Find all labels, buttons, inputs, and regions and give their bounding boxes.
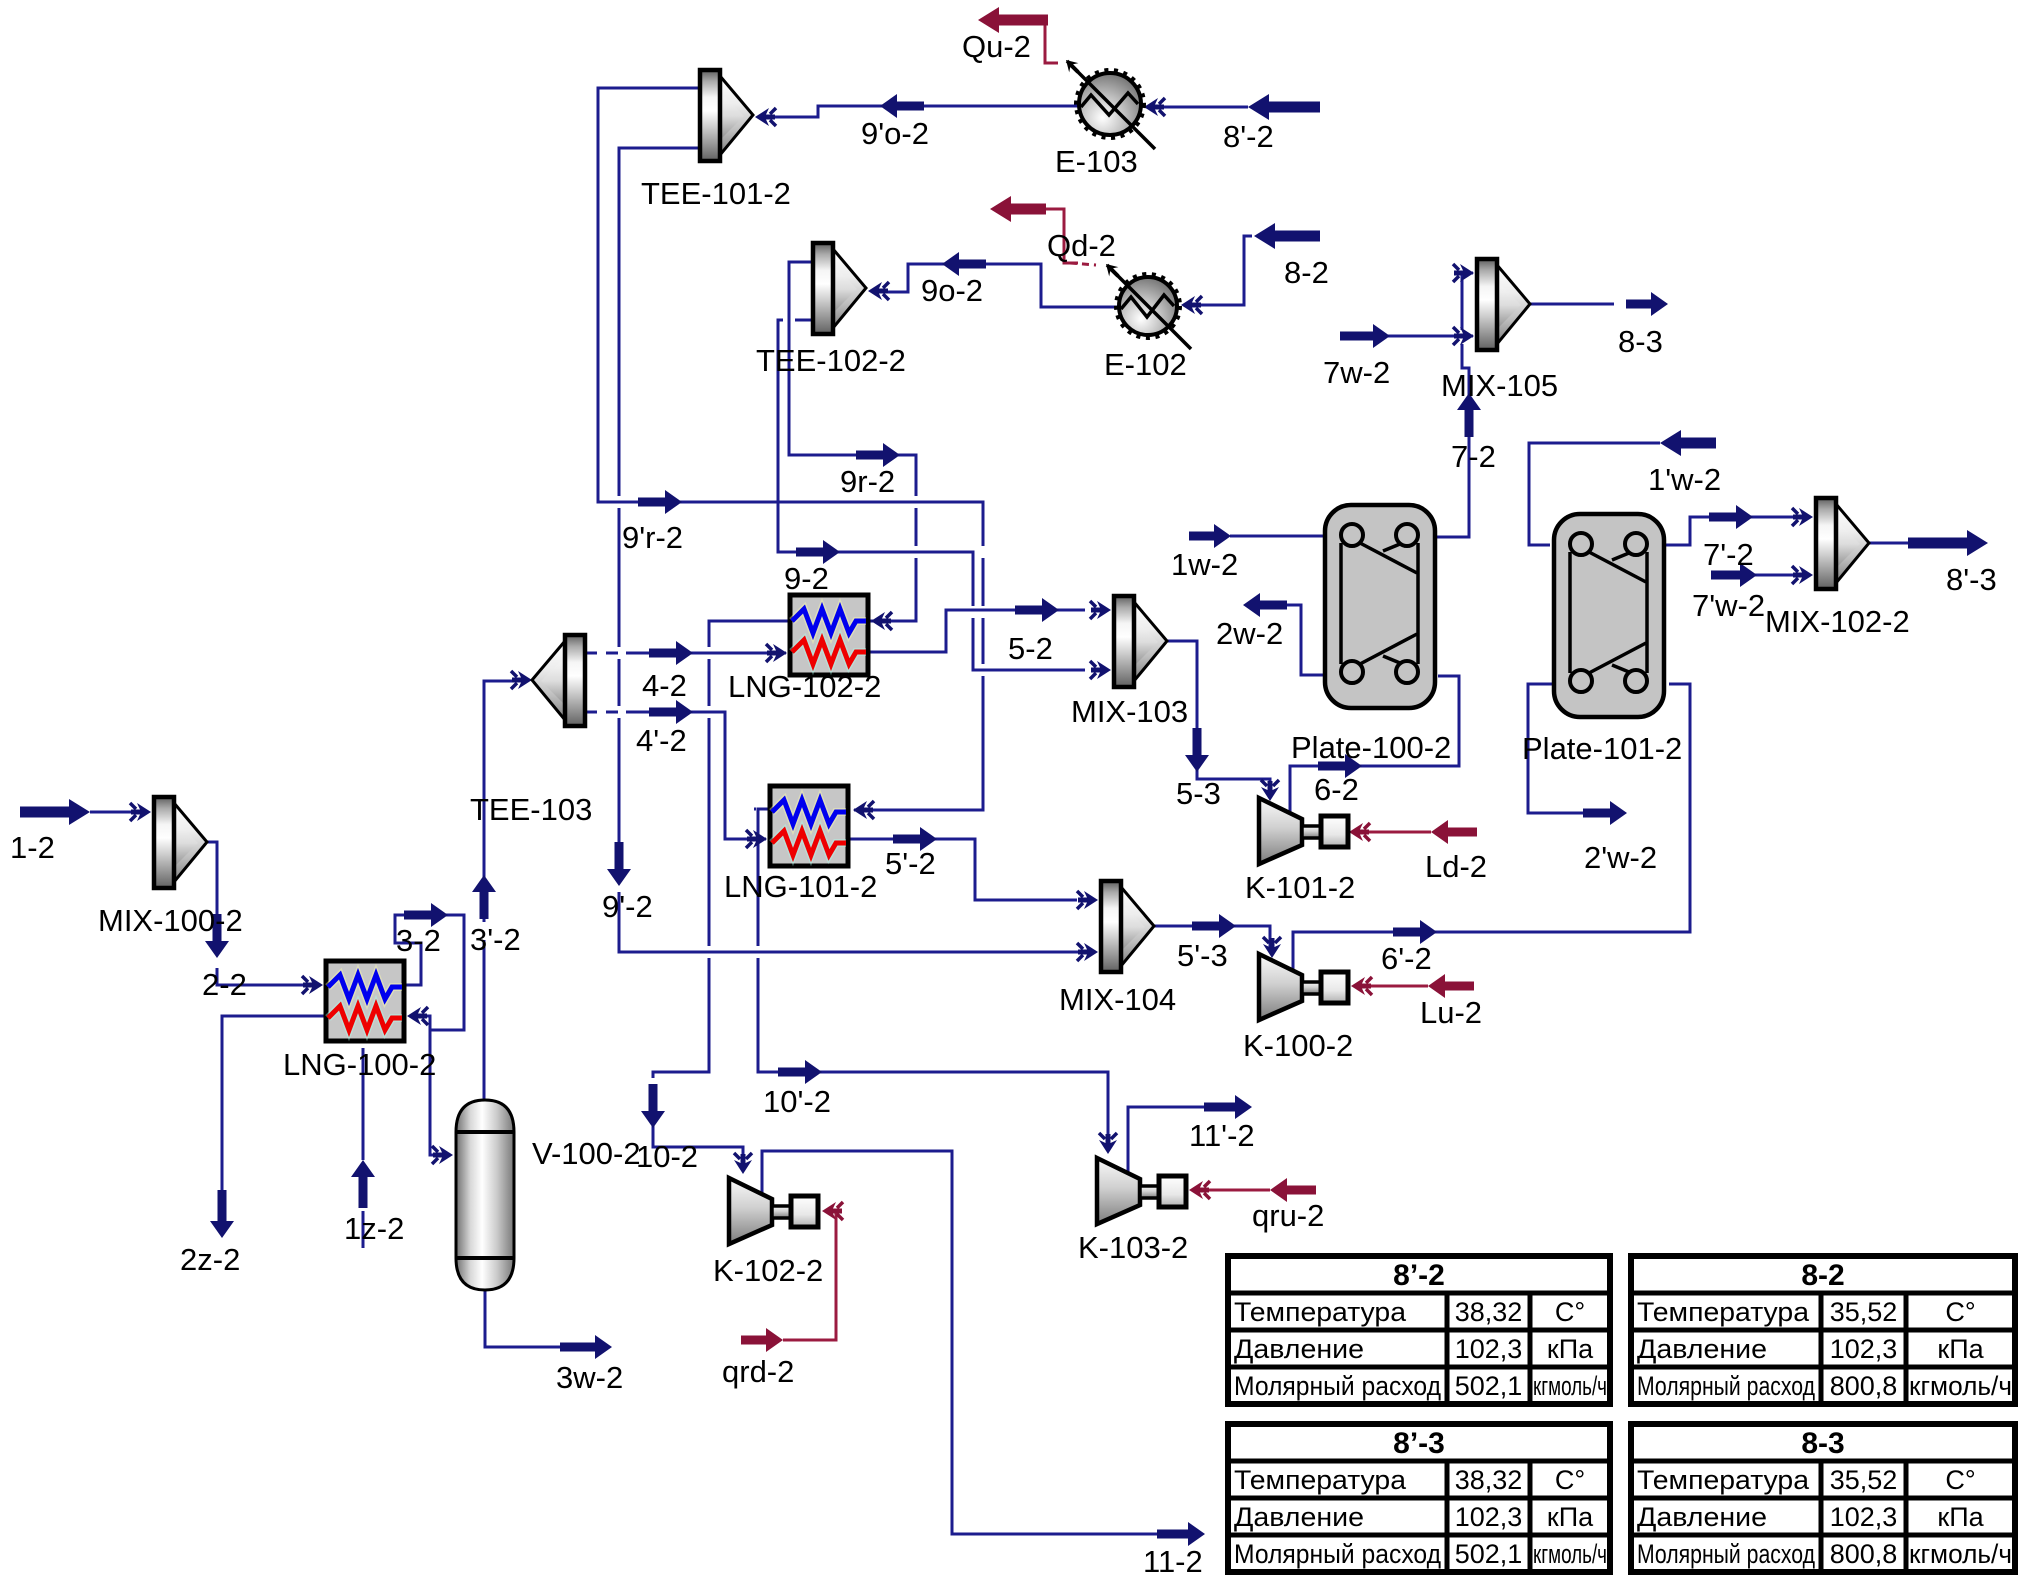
svg-text:8-2: 8-2 [1284, 255, 1329, 290]
arrow Lu-2 stub [1428, 974, 1474, 998]
svg-text:4-2: 4-2 [642, 668, 687, 703]
arrow 5'-3 [1192, 914, 1236, 938]
wire 4'-2 TEE-103 to LNG-101-2 cold inlet [585, 712, 766, 839]
wire 1'w-2 feed to Plate-101-2 [1529, 443, 1660, 545]
arrow 5-2 [1015, 598, 1059, 622]
wire 3w-2 V-100-2 bottoms stub [485, 1290, 561, 1347]
wire 1-2 feed to MIX-100-2 [90, 811, 132, 814]
arrow 4'-2 [649, 700, 693, 724]
svg-text:9'-2: 9'-2 [602, 889, 653, 924]
arrow 7w-2 [1340, 324, 1390, 348]
svg-text:3'-2: 3'-2 [470, 922, 521, 957]
svg-text:C°: C° [1945, 1465, 1975, 1495]
svg-text:кПа: кПа [1937, 1502, 1984, 1532]
mixer MIX-100-2 [154, 797, 207, 888]
inlet arrow V-100-2 [432, 1146, 453, 1164]
energy inlet arrow K-100-2 [1351, 977, 1372, 995]
arrow 9-2 [796, 540, 840, 564]
arrow Qd-2 stub [990, 196, 1046, 222]
inlet arrow MIX-100-2 [130, 803, 151, 821]
energy stream qrd-2 to K-102-2 [783, 1211, 836, 1340]
wire 3-2 LNG-100-2 recycle loop [395, 915, 464, 1030]
svg-text:5-3: 5-3 [1176, 776, 1221, 811]
wire 8'-2 feed to E-103 [1146, 106, 1248, 109]
inlet arrow MIX-103 upper [1090, 601, 1111, 619]
svg-text:102,3: 102,3 [1455, 1502, 1523, 1532]
svg-text:C°: C° [1945, 1297, 1975, 1327]
energy stream Qu-2 to E-103 [1045, 22, 1058, 63]
svg-text:Молярный расход: Молярный расход [1234, 1371, 1441, 1401]
svg-text:Молярный расход: Молярный расход [1637, 1371, 1815, 1401]
svg-text:кПа: кПа [1937, 1334, 1984, 1364]
inlet arrow TEE-101-2 [755, 108, 776, 126]
energy inlet arrow K-102-2 [822, 1202, 843, 1220]
svg-text:4'-2: 4'-2 [636, 723, 687, 758]
svg-text:LNG-102-2: LNG-102-2 [728, 669, 881, 704]
svg-text:Молярный расход: Молярный расход [1234, 1539, 1441, 1569]
svg-text:7'-2: 7'-2 [1703, 537, 1754, 572]
svg-text:LNG-101-2: LNG-101-2 [724, 869, 877, 904]
arrow 3'-2 upward [472, 875, 496, 919]
wire 4-2 TEE-103 to LNG-102-2 cold inlet [585, 652, 786, 655]
arrow 11'-2 stub [1204, 1095, 1252, 1119]
wire 5'-3 MIX-104 outlet to K-100-2 [1152, 926, 1270, 950]
svg-text:9r-2: 9r-2 [840, 464, 895, 499]
arrow 5-3 downward [1185, 728, 1209, 772]
table 8’-3 [1228, 1424, 1610, 1572]
svg-text:8-3: 8-3 [1618, 324, 1663, 359]
arrow 1-2 feed stub [20, 799, 90, 825]
arrow qrd-2 stub [741, 1328, 783, 1352]
svg-text:9o-2: 9o-2 [921, 273, 983, 308]
arrow 4-2 [649, 641, 693, 665]
wire 8'-3 MIX-102-2 product stub [1867, 542, 1910, 545]
svg-text:6-2: 6-2 [1314, 772, 1359, 807]
svg-text:qru-2: qru-2 [1252, 1198, 1324, 1233]
svg-text:TEE-103: TEE-103 [470, 792, 592, 827]
energy inlet arrow K-101-2 [1349, 823, 1370, 841]
svg-text:Давление: Давление [1637, 1334, 1767, 1364]
svg-text:E-103: E-103 [1055, 144, 1138, 179]
mixer MIX-102-2 [1816, 498, 1869, 589]
svg-text:9'o-2: 9'o-2 [861, 116, 929, 151]
wire 8-2 feed to E-102 [1183, 236, 1252, 305]
svg-text:Температура: Температура [1637, 1465, 1810, 1495]
svg-text:MIX-102-2: MIX-102-2 [1765, 604, 1910, 639]
svg-text:800,8: 800,8 [1830, 1539, 1898, 1569]
arrow Qu-2 stub [978, 7, 1048, 33]
svg-text:2z-2: 2z-2 [180, 1242, 240, 1277]
svg-text:800,8: 800,8 [1830, 1371, 1898, 1401]
svg-text:MIX-105: MIX-105 [1441, 368, 1558, 403]
tee TEE-102-2 [813, 243, 866, 334]
svg-text:1z-2: 1z-2 [344, 1211, 404, 1246]
svg-text:8-3: 8-3 [1801, 1427, 1844, 1460]
energy stream Qd-2 to E-102 [1046, 209, 1078, 263]
svg-text:Температура: Температура [1234, 1465, 1407, 1495]
svg-text:2-2: 2-2 [202, 967, 247, 1002]
inlet arrow TEE-102-2 [868, 282, 889, 300]
inlet arrow MIX-102-2 lower [1792, 566, 1813, 584]
wire 2w-2 Plate-100-2 outlet stub [1247, 605, 1325, 675]
arrow 9'r-2 [638, 490, 682, 514]
inlet arrow E-102 [1181, 296, 1202, 314]
svg-text:LNG-100-2: LNG-100-2 [283, 1047, 436, 1082]
wire 9-2 TEE-102-2 bottom output to MIX-103 lower inlet [778, 320, 1085, 670]
svg-text:MIX-100-2: MIX-100-2 [98, 903, 243, 938]
inlet arrow LNG-101-2 hot [853, 801, 874, 819]
svg-text:9-2: 9-2 [784, 561, 829, 596]
svg-text:1'w-2: 1'w-2 [1648, 462, 1721, 497]
wire 9r-2 TEE-102-2 top output to LNG-102-2 hot inlet [789, 262, 916, 621]
svg-text:8'-2: 8'-2 [1223, 119, 1274, 154]
energy stream Ld-2 to K-101-2 [1354, 831, 1431, 834]
svg-text:7'w-2: 7'w-2 [1692, 588, 1765, 623]
arrow 8'-3 stub [1908, 530, 1988, 556]
wire 7-2 Plate-100-2 to MIX-105 [1435, 273, 1473, 537]
svg-text:10'-2: 10'-2 [763, 1084, 831, 1119]
heat exchanger E-103 [1061, 55, 1155, 149]
table 8’-2 [1228, 1256, 1610, 1404]
arrow 6'-2 [1393, 920, 1437, 944]
arrow 3-2 [404, 903, 448, 927]
wire 1w-2 feed to Plate-100-2 [1230, 535, 1325, 538]
inlet arrow K-103-2 [1099, 1133, 1117, 1154]
svg-text:Plate-101-2: Plate-101-2 [1522, 731, 1682, 766]
svg-text:3-2: 3-2 [396, 923, 441, 958]
wire 2z-2 LNG-100-2 product stub [222, 1016, 326, 1190]
inlet arrow MIX-104 lower [1077, 943, 1098, 961]
tee TEE-101-2 [700, 70, 753, 161]
table 8-3 [1631, 1424, 2015, 1572]
inlet arrow LNG-101-2 cold [746, 830, 767, 848]
wire 5'-2 LNG-101-2 cold outlet to MIX-104 upper inlet [850, 839, 1077, 900]
wire V-100-2 feed [430, 1030, 450, 1155]
svg-text:V-100-2: V-100-2 [532, 1136, 641, 1171]
mixer MIX-105 [1477, 259, 1530, 350]
svg-text:11'-2: 11'-2 [1189, 1118, 1255, 1153]
svg-text:TEE-102-2: TEE-102-2 [756, 343, 906, 378]
inlet arrow LNG-100-2 cold [302, 976, 323, 994]
svg-text:3w-2: 3w-2 [556, 1360, 623, 1395]
plate exchanger Plate-101-2 [1554, 514, 1664, 717]
wire 6-2 K-101-2 outlet to Plate-100-2 [1290, 676, 1459, 812]
svg-text:Qu-2: Qu-2 [962, 29, 1031, 64]
energy stream qru-2 to K-103-2 [1192, 1189, 1270, 1192]
expander K-100-2 [1259, 954, 1348, 1020]
arrow 2z-2 downward stub [210, 1190, 234, 1238]
svg-text:2'w-2: 2'w-2 [1584, 840, 1657, 875]
arrow 10-2 downward [641, 1084, 665, 1128]
inlet arrow E-103 [1144, 98, 1165, 116]
inlet arrow MIX-105 upper [1453, 264, 1474, 282]
arrow 8-2 feed stub [1254, 223, 1320, 249]
wire 8-3 MIX-105 product stub [1528, 303, 1614, 306]
expander K-103-2 [1097, 1158, 1186, 1224]
svg-text:8'-3: 8'-3 [1946, 562, 1997, 597]
heat exchanger E-102 [1101, 259, 1191, 349]
inlet arrow MIX-102-2 upper [1792, 508, 1813, 526]
mixer MIX-103 [1114, 596, 1167, 687]
svg-text:8’-3: 8’-3 [1393, 1427, 1445, 1460]
svg-text:кПа: кПа [1547, 1502, 1594, 1532]
arrow 2'w-2 [1583, 801, 1627, 825]
tee TEE-103 [532, 635, 585, 726]
arrow 7'-2 [1709, 505, 1753, 529]
svg-text:38,32: 38,32 [1455, 1297, 1523, 1327]
wire 9'r-2 TEE-101-2 top output to LNG-101-2 hot inlet [598, 88, 983, 810]
expander K-101-2 [1259, 798, 1348, 864]
svg-text:102,3: 102,3 [1830, 1502, 1898, 1532]
arrow 1w-2 [1189, 524, 1231, 548]
svg-text:Qd-2: Qd-2 [1047, 228, 1116, 263]
inlet arrow MIX-105 lower [1453, 327, 1474, 345]
LNG exchanger LNG-100-2 [326, 961, 404, 1041]
wire 9'-2 TEE-101-2 bottom output to MIX-104 [619, 148, 1085, 952]
mixer MIX-104 [1101, 881, 1154, 972]
svg-text:C°: C° [1555, 1297, 1585, 1327]
svg-text:8-2: 8-2 [1801, 1259, 1844, 1292]
arrow 9r-2 [856, 443, 900, 467]
inlet arrow TEE-103 [511, 671, 532, 689]
wire 2'w-2 Plate-101-2 outlet stub [1528, 684, 1586, 813]
arrow Ld-2 stub [1431, 820, 1477, 844]
expander K-102-2 [729, 1178, 818, 1244]
arrow 1z-2 upward stub [351, 1160, 375, 1208]
wire 6'-2 K-100-2 outlet to Plate-101-2 [1293, 684, 1690, 969]
svg-text:38,32: 38,32 [1455, 1465, 1523, 1495]
svg-text:кгмоль/ч: кгмоль/ч [1909, 1371, 2012, 1401]
wire 7'w-2 feed to MIX-102-2 [1712, 574, 1806, 577]
svg-text:102,3: 102,3 [1455, 1334, 1523, 1364]
arrow 2-2 downward [205, 914, 229, 958]
svg-text:2w-2: 2w-2 [1216, 616, 1283, 651]
inlet arrow LNG-102-2 cold [766, 644, 787, 662]
svg-text:6'-2: 6'-2 [1381, 941, 1432, 976]
inlet arrow K-100-2 [1263, 937, 1281, 958]
svg-text:7-2: 7-2 [1451, 439, 1496, 474]
svg-text:C°: C° [1555, 1465, 1585, 1495]
inlet arrow K-101-2 [1261, 780, 1279, 801]
svg-text:E-102: E-102 [1104, 347, 1187, 382]
svg-text:K-100-2: K-100-2 [1243, 1028, 1353, 1063]
svg-text:qrd-2: qrd-2 [722, 1354, 794, 1389]
wire 3'-2 V-100-2 overhead to TEE-103 [484, 681, 528, 1100]
LNG exchanger LNG-102-2 [790, 595, 868, 675]
svg-text:Молярный расход: Молярный расход [1637, 1539, 1815, 1569]
table 8-2 [1631, 1256, 2015, 1404]
svg-text:5-2: 5-2 [1008, 631, 1053, 666]
arrow 9o-2 [942, 252, 986, 276]
svg-text:Lu-2: Lu-2 [1420, 995, 1482, 1030]
svg-text:35,52: 35,52 [1830, 1297, 1898, 1327]
svg-text:кгмоль/ч: кгмоль/ч [1533, 1371, 1607, 1401]
inlet arrow MIX-103 lower [1090, 661, 1111, 679]
wire 11-2 K-102-2 product line [762, 1151, 1162, 1534]
svg-text:8’-2: 8’-2 [1393, 1259, 1445, 1292]
arrow 2w-2 [1243, 593, 1287, 617]
svg-text:TEE-101-2: TEE-101-2 [641, 176, 791, 211]
svg-text:MIX-103: MIX-103 [1071, 694, 1188, 729]
inlet arrow MIX-104 upper [1077, 891, 1098, 909]
wire 11'-2 K-103-2 product stub [1128, 1107, 1210, 1172]
LNG exchanger LNG-101-2 [770, 786, 848, 866]
svg-text:MIX-104: MIX-104 [1059, 982, 1176, 1017]
energy inlet arrow K-103-2 [1189, 1181, 1210, 1199]
arrow qru-2 stub [1270, 1178, 1316, 1202]
svg-text:10-2: 10-2 [636, 1139, 698, 1174]
svg-text:Давление: Давление [1234, 1502, 1364, 1532]
svg-text:Давление: Давление [1234, 1334, 1364, 1364]
inlet arrow LNG-100-2 hot [407, 1007, 428, 1025]
svg-text:35,52: 35,52 [1830, 1465, 1898, 1495]
svg-text:Температура: Температура [1637, 1297, 1810, 1327]
arrow 6-2 [1318, 754, 1362, 778]
plate exchanger Plate-100-2 [1325, 505, 1435, 708]
svg-text:502,1: 502,1 [1455, 1539, 1523, 1569]
svg-text:502,1: 502,1 [1455, 1371, 1523, 1401]
svg-text:7w-2: 7w-2 [1323, 355, 1390, 390]
svg-text:K-103-2: K-103-2 [1078, 1230, 1188, 1265]
svg-text:Давление: Давление [1637, 1502, 1767, 1532]
svg-text:Plate-100-2: Plate-100-2 [1291, 730, 1451, 765]
svg-text:кПа: кПа [1547, 1334, 1594, 1364]
wire 9'o-2 E-103 to TEE-101-2 [770, 106, 1079, 117]
arrow 9'-2 downward [607, 842, 631, 886]
svg-text:Температура: Температура [1234, 1297, 1407, 1327]
svg-text:K-101-2: K-101-2 [1245, 870, 1355, 905]
energy stream Lu-2 to K-100-2 [1358, 985, 1428, 988]
svg-text:5'-2: 5'-2 [885, 846, 936, 881]
arrow 8-3 stub [1626, 292, 1668, 316]
arrow 11-2 stub [1157, 1522, 1205, 1546]
svg-text:Ld-2: Ld-2 [1425, 849, 1487, 884]
wire 10-2 LNG-102-2 outlet to K-102-2 [653, 621, 790, 1166]
arrow 5'-2 [893, 827, 937, 851]
wire 9o-2 E-102 to TEE-102-2 [874, 264, 1119, 307]
svg-text:9'r-2: 9'r-2 [622, 520, 683, 555]
wire 7'-2 Plate-101-2 to MIX-102-2 [1666, 517, 1806, 545]
svg-text:K-102-2: K-102-2 [713, 1253, 823, 1288]
wire 2-2 MIX-100-2 outlet to LNG-100-2 [205, 842, 304, 985]
wire 5-3 MIX-103 outlet to K-101-2 [1165, 641, 1270, 796]
svg-text:кгмоль/ч: кгмоль/ч [1909, 1539, 2012, 1569]
separator V-100-2 [456, 1100, 514, 1290]
arrow 8'-2 feed stub [1248, 94, 1320, 120]
inlet arrow K-102-2 [734, 1153, 752, 1174]
arrow 7-2 upward [1457, 393, 1481, 437]
svg-text:1-2: 1-2 [10, 830, 55, 865]
arrow 7'w-2 [1711, 563, 1757, 587]
wire 5-2 LNG-102-2 cold outlet to MIX-103 upper inlet [868, 610, 1085, 652]
svg-text:11-2: 11-2 [1143, 1544, 1203, 1579]
wire 10'-2 LNG-101-2 outlet to K-103-2 [758, 809, 1108, 1146]
inlet arrow LNG-102-2 hot [871, 612, 892, 630]
svg-text:1w-2: 1w-2 [1171, 547, 1238, 582]
arrow 3w-2 stub [560, 1335, 612, 1359]
svg-text:5'-3: 5'-3 [1177, 938, 1228, 973]
wire 1z-2 feed to LNG-100-2 [362, 1048, 365, 1248]
svg-text:кгмоль/ч: кгмоль/ч [1533, 1539, 1607, 1569]
svg-text:102,3: 102,3 [1830, 1334, 1898, 1364]
arrow 10'-2 [778, 1060, 822, 1084]
arrow 1'w-2 stub [1660, 430, 1716, 456]
arrow 9'o-2 [880, 94, 924, 118]
wire 7w-2 feed to MIX-105 [1388, 335, 1473, 338]
